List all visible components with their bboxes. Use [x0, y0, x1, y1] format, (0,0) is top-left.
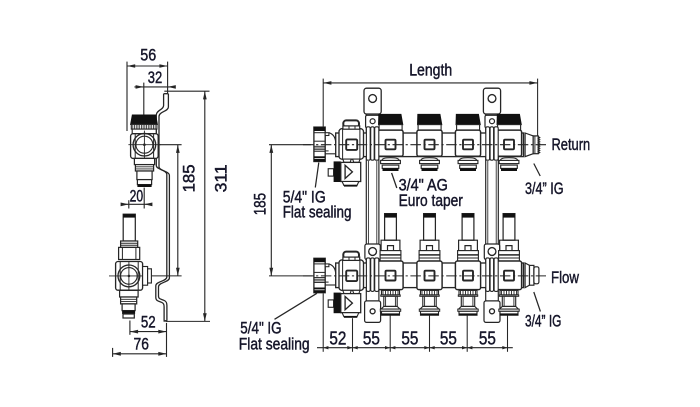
svg-text:311: 311	[213, 164, 231, 192]
svg-text:3/4” IG: 3/4” IG	[525, 312, 561, 330]
svg-text:Flow: Flow	[551, 268, 580, 287]
svg-text:185: 185	[252, 193, 270, 215]
svg-text:185: 185	[180, 164, 198, 192]
svg-text:3/4” IG: 3/4” IG	[525, 180, 564, 198]
svg-text:56: 56	[140, 46, 156, 64]
svg-text:20: 20	[130, 188, 144, 206]
svg-text:52: 52	[141, 314, 156, 332]
svg-text:Euro taper: Euro taper	[399, 192, 464, 210]
svg-text:Flat sealing: Flat sealing	[283, 204, 352, 222]
svg-text:Length: Length	[409, 62, 452, 80]
svg-text:55: 55	[479, 328, 496, 348]
svg-text:76: 76	[134, 336, 149, 354]
svg-text:32: 32	[148, 69, 163, 87]
svg-text:55: 55	[363, 328, 380, 348]
svg-text:55: 55	[401, 328, 418, 348]
svg-text:Return: Return	[552, 135, 591, 154]
svg-text:52: 52	[329, 328, 346, 348]
svg-text:Flat sealing: Flat sealing	[239, 336, 310, 354]
svg-text:55: 55	[440, 328, 457, 348]
